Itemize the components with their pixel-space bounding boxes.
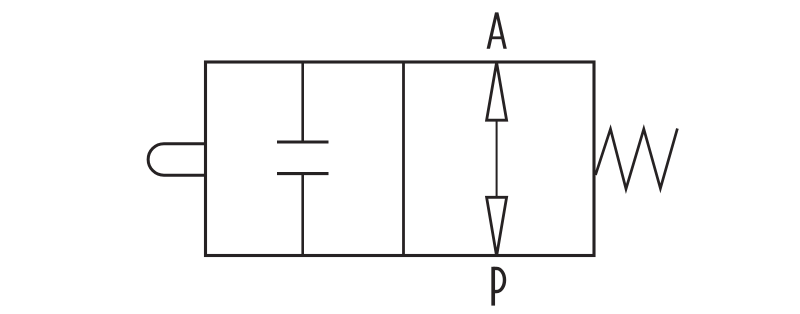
blocked port lower (closed position)	[277, 174, 329, 255]
return spring	[596, 129, 678, 189]
valve body box	[206, 62, 595, 256]
position divider wire	[402, 62, 405, 256]
flow path arrow A to P (open position)	[487, 63, 507, 257]
pushbutton actuator	[148, 144, 206, 176]
port label A	[487, 12, 507, 48]
port label P	[493, 267, 504, 306]
blocked port upper (closed position)	[277, 63, 329, 142]
